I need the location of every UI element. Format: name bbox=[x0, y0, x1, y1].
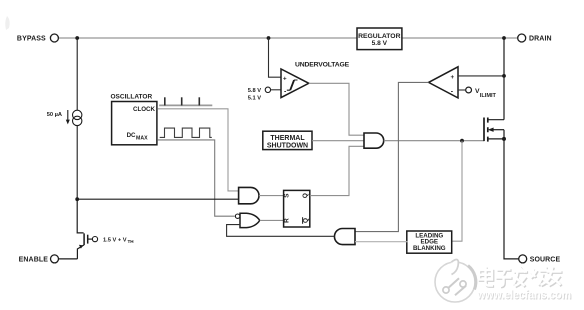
wire drain down bbox=[503, 38, 505, 120]
terminal DRAIN bbox=[518, 34, 526, 42]
flip-flop box bbox=[284, 190, 310, 227]
node enable line junction bbox=[75, 197, 79, 201]
wire dcmax output bbox=[158, 140, 235, 216]
clock waveform bbox=[159, 104, 212, 106]
svg-text:BLANKING: BLANKING bbox=[413, 245, 446, 252]
wire reset and output to or gate bbox=[227, 225, 335, 237]
svg-text:50 µA: 50 µA bbox=[47, 112, 62, 118]
svg-text:THERMAL: THERMAL bbox=[270, 135, 305, 142]
op-amp current limit comparator bbox=[429, 67, 458, 98]
terminal BYPASS bbox=[50, 34, 58, 42]
node ilimit tap bbox=[502, 74, 506, 78]
and gate S input bbox=[239, 187, 259, 203]
faint smudge top-left bbox=[5, 16, 9, 30]
svg-text:R: R bbox=[284, 218, 291, 223]
svg-text:Q: Q bbox=[302, 193, 309, 198]
svg-text:BYPASS: BYPASS bbox=[17, 36, 46, 43]
svg-text:SOURCE: SOURCE bbox=[530, 257, 561, 264]
terminal 5.8V/5.1V reference bbox=[265, 87, 270, 92]
svg-text:www.elecfans.com: www.elecfans.com bbox=[476, 288, 571, 302]
node source bbox=[502, 137, 506, 141]
node undervoltage tap bbox=[267, 36, 271, 40]
or gate R input bbox=[240, 213, 260, 227]
svg-text:ENABLE: ENABLE bbox=[19, 257, 49, 264]
wire clock output bbox=[158, 109, 239, 191]
wire thermal to and bbox=[312, 140, 364, 142]
transistor Q2 enable sense bbox=[77, 199, 92, 259]
wire undervoltage output bbox=[309, 83, 364, 135]
terminal V ILIMIT bbox=[458, 89, 466, 91]
transistor Q1 power mosfet bbox=[484, 118, 504, 142]
svg-text:+: + bbox=[283, 75, 287, 82]
node drain tap bbox=[502, 36, 506, 40]
svg-text:5.1 V: 5.1 V bbox=[248, 96, 261, 102]
svg-text:+: + bbox=[451, 74, 455, 81]
svg-text:REGULATOR: REGULATOR bbox=[358, 33, 401, 40]
wire BYPASS rail bbox=[58, 37, 357, 39]
dcmax waveform bbox=[160, 128, 212, 137]
wire bypass vertical to current source bbox=[76, 38, 78, 110]
node gate drive bbox=[460, 139, 464, 143]
svg-text:MAX: MAX bbox=[136, 136, 148, 142]
svg-text:DRAIN: DRAIN bbox=[529, 36, 552, 43]
svg-text:ILIMIT: ILIMIT bbox=[480, 93, 497, 99]
wire gate node down to leb bbox=[452, 141, 462, 242]
watermark chinese text shadow bbox=[480, 268, 562, 288]
op-amp undervoltage comparator bbox=[281, 69, 309, 98]
svg-text:5.8 V: 5.8 V bbox=[372, 40, 388, 47]
svg-text:CLOCK: CLOCK bbox=[133, 106, 156, 113]
wire and to S bbox=[259, 195, 284, 197]
svg-text:S: S bbox=[284, 193, 291, 198]
wire current source down bbox=[76, 125, 78, 199]
svg-text:Q: Q bbox=[303, 218, 310, 223]
terminal ENABLE bbox=[59, 258, 78, 260]
wire enable to and gate bbox=[77, 198, 238, 200]
current source 50uA bbox=[66, 110, 82, 126]
wire and output to mosfet gate bbox=[384, 140, 484, 142]
svg-text:5.8 V: 5.8 V bbox=[248, 88, 261, 94]
wire ilimit + input bbox=[458, 75, 504, 77]
watermark chinese text 电子发烧友 bbox=[479, 267, 562, 287]
svg-text:SHUTDOWN: SHUTDOWN bbox=[267, 143, 308, 150]
wire source down bbox=[504, 130, 519, 259]
wire leb to reset and bbox=[355, 241, 407, 243]
svg-text:1.5 V + V: 1.5 V + V bbox=[103, 237, 127, 243]
wire ilimit output down bbox=[355, 82, 429, 231]
svg-text:UNDERVOLTAGE: UNDERVOLTAGE bbox=[295, 62, 350, 69]
thermal shutdown box bbox=[263, 131, 312, 149]
wire or to R bbox=[260, 219, 284, 221]
svg-text:DC: DC bbox=[127, 132, 136, 139]
svg-text:TH: TH bbox=[128, 239, 135, 244]
and gate reset (left facing) bbox=[334, 229, 355, 245]
wire undervoltage + input bbox=[269, 38, 282, 77]
svg-text:OSCILLATOR: OSCILLATOR bbox=[111, 93, 153, 100]
leading edge blanking box bbox=[407, 231, 452, 253]
and gate gate-drive bbox=[364, 133, 384, 148]
wire Q up to and gate bbox=[310, 146, 364, 195]
node bypass junction bbox=[75, 36, 79, 40]
regulator U5 box bbox=[357, 28, 402, 50]
wire regulator to drain bbox=[402, 37, 518, 39]
terminal SOURCE bbox=[519, 255, 527, 263]
oscillator box bbox=[112, 102, 157, 145]
